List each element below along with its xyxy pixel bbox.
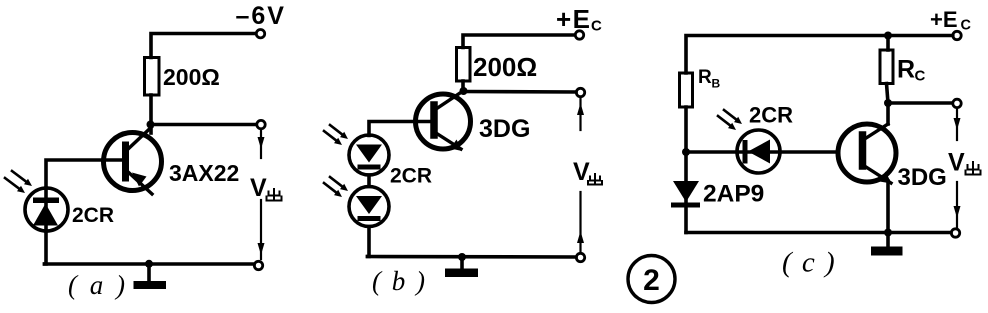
wire bottom rail a — [45, 262, 255, 266]
chu glyph (a) — [267, 189, 282, 201]
svg-text:–6V: –6V — [236, 2, 286, 30]
wire between photodiodes (b) — [367, 175, 371, 187]
wire resistor to collector node — [149, 95, 153, 133]
ground (a) — [134, 264, 167, 289]
svg-text:2CR: 2CR — [72, 204, 114, 227]
photodiode D2 2CR (b) — [349, 187, 389, 227]
wire output lower with arrow (b) — [577, 192, 584, 253]
svg-text:( a ): ( a ) — [68, 270, 128, 300]
wire top rail b — [463, 35, 575, 48]
svg-text:C: C — [591, 18, 602, 35]
transistor Q3 3DG (c) — [838, 124, 896, 184]
svg-text:C: C — [915, 68, 926, 85]
resistor RB (c) — [680, 73, 693, 107]
resistor R 200ohm (b) — [457, 48, 471, 82]
photodiode 2CR (c) — [737, 130, 780, 173]
node collector junction (c) — [884, 99, 892, 107]
wire output lower with arrow (a) — [258, 200, 265, 259]
chu glyph (c) — [966, 162, 981, 175]
wire bottom rail b — [368, 255, 577, 259]
wire resistor to collector node (b) — [461, 81, 465, 91]
wire top rail a — [151, 34, 255, 58]
wire output upper with arrow (c) — [954, 108, 961, 140]
wire base (b) — [369, 122, 431, 136]
wire base net (c) — [686, 150, 838, 154]
node Rc tap on top rail — [884, 32, 892, 40]
wire RB to bottom rail (c) — [684, 107, 688, 233]
resistor RC (c) — [880, 36, 893, 104]
wire collector node to output (b) — [464, 90, 577, 94]
svg-text:R: R — [698, 67, 712, 88]
node ground junction (b) — [458, 253, 466, 261]
wire base (a) — [46, 160, 122, 188]
node ground junction (c) — [884, 229, 892, 237]
svg-text:200Ω: 200Ω — [163, 64, 220, 90]
svg-text:( b ): ( b ) — [372, 266, 427, 296]
wire photodiode to bottom rail — [45, 231, 47, 264]
node base junction (c) — [682, 148, 690, 156]
transistor Q2 3DG (b) — [416, 91, 471, 151]
resistor R 200ohm (a) — [145, 58, 160, 96]
transistor Q1 3AX22 — [104, 127, 162, 194]
svg-text:3AX22: 3AX22 — [169, 160, 239, 186]
svg-text:3DG: 3DG — [898, 164, 947, 191]
supply terminal +Ec (b) — [575, 31, 583, 39]
light arrows (c) — [718, 110, 742, 130]
svg-text:B: B — [712, 77, 721, 91]
svg-text:+E: +E — [930, 7, 958, 32]
wire output lower with arrow (c) — [954, 182, 961, 228]
wire collector to node (c) — [886, 103, 890, 124]
svg-text:+E: +E — [556, 4, 592, 34]
wire bottom rail c — [686, 231, 951, 235]
svg-text:2AP9: 2AP9 — [703, 181, 764, 208]
wire photodiode2 to bottom rail (b) — [368, 227, 370, 257]
output terminal top (a) — [257, 120, 265, 128]
supply terminal +Ec (c) — [953, 31, 961, 39]
figure number 2 — [628, 256, 675, 303]
wire collector node to output — [151, 123, 257, 127]
wire collector node to output (c) — [888, 101, 952, 105]
ground (c) — [871, 233, 903, 256]
svg-text:V: V — [250, 174, 267, 202]
output terminal top (b) — [576, 88, 584, 96]
svg-text:R: R — [897, 56, 915, 84]
light arrows D1 (b) — [324, 125, 348, 145]
photodiode 2CR (a) — [25, 188, 68, 231]
output terminal bottom (a) — [254, 261, 262, 269]
svg-text:( c ): ( c ) — [782, 247, 836, 279]
output terminal bottom (c) — [951, 229, 959, 237]
svg-text:V: V — [948, 149, 965, 177]
light arrows (a) — [5, 171, 32, 193]
wire top rail c — [686, 36, 953, 74]
chu glyph (b) — [588, 174, 602, 185]
svg-text:C: C — [961, 18, 972, 34]
output terminal top (c) — [953, 99, 961, 107]
svg-text:3DG: 3DG — [479, 115, 530, 143]
photodiode D1 2CR (b) — [349, 135, 389, 175]
svg-text:200Ω: 200Ω — [473, 52, 537, 82]
supply terminal -6V — [256, 30, 264, 38]
node collector junction (a) — [147, 121, 155, 129]
node collector junction (b) — [460, 87, 468, 95]
wire emitter to ground (c) — [886, 181, 890, 233]
svg-text:2CR: 2CR — [749, 103, 793, 128]
wire output upper with arrow (a) — [258, 130, 265, 158]
light arrows D2 (b) — [324, 177, 348, 197]
diode 2AP9 (c) — [671, 181, 700, 208]
ground (b) — [445, 257, 478, 277]
svg-text:2CR: 2CR — [390, 165, 432, 188]
svg-text:2: 2 — [643, 264, 660, 297]
output terminal bottom (b) — [576, 253, 584, 261]
wire output upper with arrow (b) — [577, 98, 584, 130]
node ground junction (a) — [145, 260, 153, 268]
